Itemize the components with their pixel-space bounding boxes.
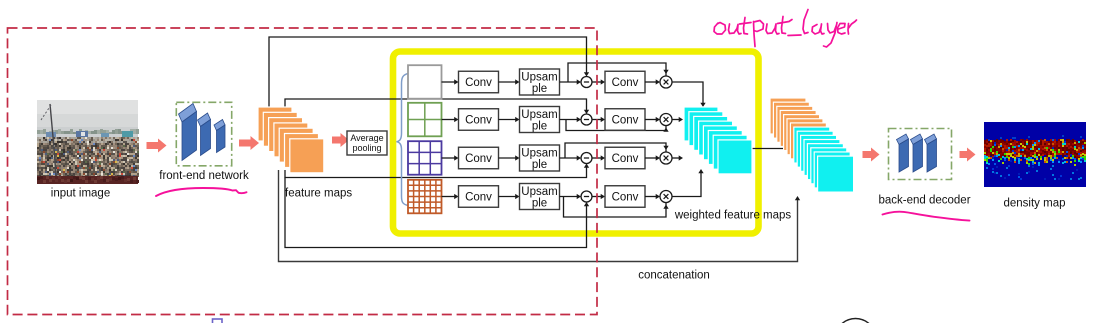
- svg-text:Conv: Conv: [612, 192, 639, 204]
- partial legend circle (cut off at bottom): [835, 319, 876, 323]
- svg-text:Conv: Conv: [612, 115, 639, 127]
- svg-text:weighted feature maps: weighted feature maps: [674, 210, 792, 222]
- wire square to Conv row 1: [442, 79, 459, 84]
- svg-text:Upsam: Upsam: [521, 186, 557, 198]
- handwritten annotation "output_layer": [714, 10, 857, 48]
- red dashed region boundary: [8, 28, 598, 315]
- svg-text:Upsam: Upsam: [521, 109, 557, 121]
- Conv box row 3 (first Conv): [459, 147, 499, 169]
- wire square to Conv row 3: [442, 155, 459, 160]
- wire subtract to Conv row 2: [592, 117, 605, 122]
- svg-text:ple: ple: [532, 120, 547, 132]
- svg-text:ple: ple: [532, 83, 547, 95]
- Conv box row 3 (second Conv, weight): [605, 147, 645, 169]
- wire Conv to multiplier row 1: [645, 79, 660, 84]
- wire Conv to multiplier row 4: [645, 194, 660, 199]
- pink underline squiggle under back-end decoder: [883, 212, 970, 221]
- Conv box row 2 (second Conv, weight): [605, 109, 645, 131]
- back-end conv slab 1: [897, 134, 909, 172]
- feature maps stack (orange): [258, 107, 324, 173]
- Conv box row 4 (second Conv, weight): [605, 186, 645, 208]
- back-end decoder dashed green box: [889, 129, 952, 180]
- grid square S2 (2x2): [408, 103, 442, 137]
- back-end conv slab 3: [925, 134, 937, 172]
- weighted feature maps stack (cyan): [684, 107, 752, 174]
- multiply circle row 2: [660, 114, 672, 126]
- pink arrow concatenated maps to back-end decoder: [863, 148, 880, 162]
- wire Conv to Upsample row 2: [499, 117, 520, 122]
- yellow highlight box (output layer region): [393, 52, 759, 234]
- wire subtract to Conv row 3: [592, 155, 605, 160]
- Conv box row 2 (first Conv): [459, 109, 499, 131]
- concatenated stack (orange + cyan): [770, 98, 854, 192]
- pink arrow input image to front-end network: [147, 139, 167, 153]
- blue brace fanning pooled features to four scales: [397, 74, 409, 206]
- svg-text:concatenation: concatenation: [638, 270, 710, 282]
- Upsample box row 3: [520, 145, 560, 171]
- svg-text:Conv: Conv: [465, 192, 492, 204]
- Upsample box row 4: [520, 184, 560, 210]
- wire Conv to Upsample row 3: [499, 155, 520, 160]
- wire Upsample to subtract row 1: [560, 79, 582, 84]
- svg-text:ple: ple: [532, 159, 547, 171]
- wire Conv to multiplier row 3: [645, 155, 660, 160]
- svg-text:Conv: Conv: [612, 153, 639, 165]
- front-end conv slab 2: [198, 113, 211, 156]
- Upsample box row 2: [520, 107, 560, 133]
- svg-text:Conv: Conv: [465, 153, 492, 165]
- svg-text:Conv: Conv: [465, 115, 492, 127]
- bypass wire row 1 (upsampled features to multiplier): [568, 63, 669, 82]
- subtract circle row 1: [581, 77, 592, 88]
- Conv box row 4 (first Conv): [459, 186, 499, 208]
- pink underline squiggle under front-end network: [156, 188, 247, 196]
- pink arrow feature maps to average pooling: [332, 133, 349, 147]
- front-end network dashed green box: [176, 102, 231, 166]
- wire Conv to Upsample row 4: [499, 194, 520, 199]
- partial legend square (cut off at bottom): [213, 319, 223, 323]
- svg-text:feature maps: feature maps: [285, 188, 352, 200]
- wire multiplier 1 output down into weighted maps: [672, 82, 706, 107]
- Conv box row 1 (first Conv): [459, 71, 499, 93]
- grid square S4 (6x6): [408, 180, 442, 214]
- wire skip row4: feature maps under to subtract 4: [285, 178, 589, 248]
- svg-text:front-end network: front-end network: [159, 170, 249, 182]
- wire concatenation loop: feature maps around bottom to concat stack: [279, 170, 801, 262]
- multiply circle row 4: [660, 191, 672, 203]
- wire Conv to multiplier row 2: [645, 117, 660, 122]
- input image (crowd photo): [37, 100, 139, 184]
- bypass wire row 3 (upsampled features to multiplier): [565, 143, 669, 158]
- svg-text:back-end decoder: back-end decoder: [878, 195, 970, 207]
- pink arrow front-end network to feature maps: [239, 136, 259, 150]
- wire skip row1: feature maps up and over to subtract 1: [269, 37, 589, 110]
- front-end conv slab 3: [214, 120, 225, 153]
- grid square S1 (1x1): [408, 65, 442, 99]
- svg-text:ple: ple: [532, 197, 547, 209]
- pink arrow back-end decoder to density map: [960, 148, 976, 162]
- wire skip row3: feature maps under to subtract 3: [285, 164, 589, 178]
- wire square to Conv row 4: [442, 194, 459, 199]
- density map output image: [984, 122, 1086, 187]
- svg-text:Upsam: Upsam: [521, 71, 557, 83]
- grid square S3 (3x3): [408, 141, 442, 175]
- wire Conv to Upsample row 1: [499, 79, 520, 84]
- svg-text:Average: Average: [350, 133, 383, 143]
- front-end conv slab 1: [179, 104, 197, 161]
- bypass wire row 4 (upsampled features to multiplier): [564, 197, 669, 218]
- wire multiplier 2 output into weighted maps: [672, 117, 683, 122]
- svg-text:pooling: pooling: [352, 143, 381, 153]
- svg-text:Upsam: Upsam: [521, 147, 557, 159]
- svg-text:input image: input image: [51, 188, 110, 200]
- wire Upsample to subtract row 3: [560, 155, 582, 160]
- wire skip row2: feature maps over to subtract 2: [285, 99, 589, 114]
- wire subtract to Conv row 4: [592, 194, 605, 199]
- subtract circle row 2: [581, 114, 592, 125]
- wire square to Conv row 2: [442, 117, 459, 122]
- wire multiplier 3 output into weighted maps: [672, 155, 683, 160]
- svg-text:density map: density map: [1003, 198, 1065, 210]
- back-end conv slab 2: [911, 134, 923, 172]
- Upsample box row 1: [520, 69, 560, 95]
- wire subtract to Conv row 1: [592, 79, 605, 84]
- svg-text:Conv: Conv: [612, 77, 639, 89]
- svg-text:Conv: Conv: [465, 77, 492, 89]
- multiply circle row 1: [660, 76, 672, 88]
- multiply circle row 3: [660, 152, 672, 164]
- wire multiplier 4 output up into weighted maps: [672, 169, 704, 197]
- Conv box row 1 (second Conv, weight): [605, 71, 645, 93]
- wire Upsample to subtract row 2: [560, 117, 582, 122]
- subtract circle row 3: [581, 153, 592, 164]
- wire Upsample to subtract row 4: [560, 194, 582, 199]
- bypass wire row 2 (upsampled features to multiplier): [566, 120, 669, 132]
- subtract circle row 4: [581, 191, 592, 202]
- Average pooling box: [347, 131, 387, 155]
- wire weighted maps to concatenation stack: [750, 148, 790, 150]
